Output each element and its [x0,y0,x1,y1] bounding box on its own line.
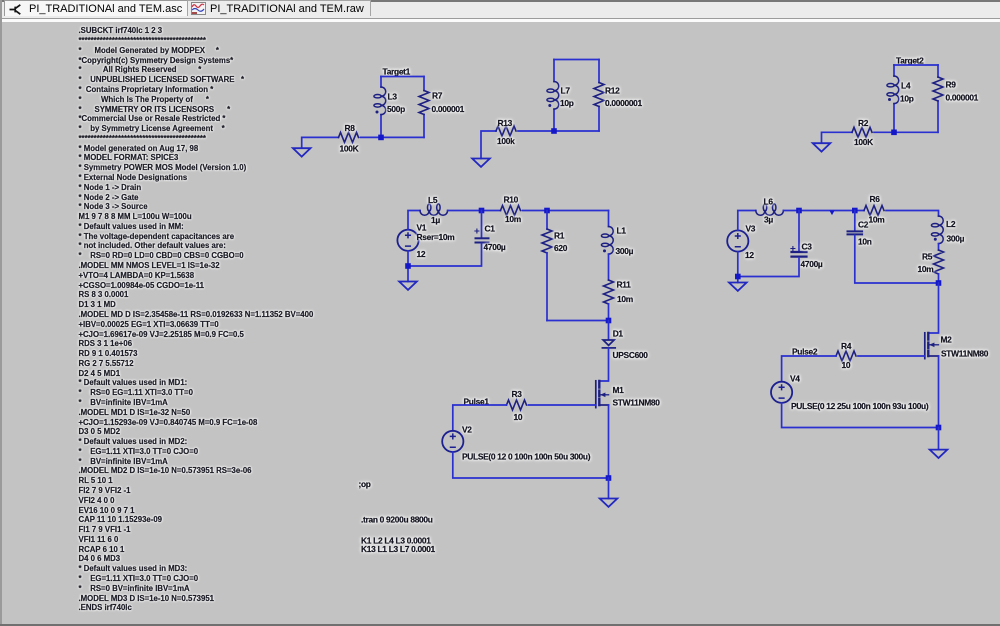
phase dot L2 [934,238,937,241]
junction circuit1 [378,135,384,141]
wire C1 lower lead [408,244,482,267]
svg-text:12: 12 [417,249,426,259]
svg-text:L3: L3 [388,91,398,101]
capacitor C1 [475,224,506,253]
wire ground stem M1 [608,478,610,499]
svg-text:R9: R9 [946,79,957,89]
svg-text:300µ: 300µ [616,246,634,256]
svg-text:M2: M2 [941,335,953,345]
node tick on wire [829,211,834,216]
tab PI_TRADITIONAl and TEM.raw [187,0,371,16]
svg-text:1µ: 1µ [431,215,440,225]
wire R1 lower lead [546,253,548,321]
svg-text:100K: 100K [340,144,359,154]
resistor R4 [836,341,856,370]
directive K13 [361,544,436,554]
svg-text:PULSE(0 12 25u 100n 100n 93u 1: PULSE(0 12 25u 100n 100n 93u 100u) [791,401,929,411]
svg-text:Target1: Target1 [383,67,411,77]
SPICE netlist text block [79,26,314,613]
wire C2 lower lead [855,235,939,283]
junction V3 bottom [735,274,741,280]
voltage source V2 [442,424,591,461]
svg-text:10p: 10p [560,98,574,108]
junction circuit3 [891,130,897,136]
resistor R5 [918,250,944,274]
ground circuit3 [813,143,831,151]
wire L1 to R11 [608,254,610,280]
wire Pulse2 [782,356,836,382]
wire loop2 bottom [554,130,599,132]
svg-text:R4: R4 [841,341,852,351]
directive K1 [361,536,431,546]
svg-text:UPSC600: UPSC600 [613,350,649,360]
resistor R3 [507,389,527,422]
svg-text:R3: R3 [512,389,523,399]
ground circuit1 [293,148,311,156]
wire L1 upper lead [608,211,610,227]
wire loop2 top [554,59,599,61]
svg-text:PULSE(0 12 0 100n 100n 50u 300: PULSE(0 12 0 100n 100n 50u 300u) [462,452,591,462]
diode D1 [602,328,648,360]
wire Pulse1 [453,405,507,431]
wire R12 leads [598,60,600,132]
wire L7 leads [553,60,555,132]
inductor L4 [887,76,914,104]
node Target1 label [383,67,411,77]
node Pulse2 label [792,346,818,356]
svg-text:620: 620 [554,243,568,253]
svg-text:C3: C3 [802,242,813,252]
wire to M2 drain [928,283,938,333]
capacitor C2 [848,220,872,247]
wire Target1 loop top [381,76,424,78]
svg-text:R8: R8 [345,123,356,133]
ground circuit2 [472,159,490,167]
wire V3 bottom [737,252,739,283]
window bottom edge [0,624,1000,626]
svg-text:D1: D1 [613,328,624,338]
svg-text:C2: C2 [858,220,869,230]
inductor L7 [547,82,574,110]
inductor L1 [601,226,633,256]
capacitor C3 [791,242,823,269]
resistor R7 [419,91,465,115]
svg-text:10: 10 [842,360,851,370]
svg-text:0.000001: 0.000001 [432,104,465,114]
svg-text:R10: R10 [504,195,519,205]
node Target2 label [896,56,924,66]
svg-text:R12: R12 [605,85,620,95]
inductor L2 [931,216,964,244]
wire R11 lower lead [608,304,610,321]
wire D1 to M1 drain [599,348,608,381]
transistor M1 [596,381,660,408]
wire L6 to C3 junction [783,210,864,212]
wire Target1 loop bottom [381,136,424,138]
svg-text:10p: 10p [900,93,914,103]
resistor R2 [852,118,873,147]
wire M1 source down [608,405,610,478]
wire M2 gate [858,355,925,357]
wire C2 upper lead [854,211,856,231]
wire R7 leads [423,77,425,138]
wire R8 right [361,136,382,138]
svg-text:10m: 10m [918,264,934,274]
phase dot L1 [603,249,606,252]
node Pulse1 label [464,396,490,406]
wire L3 leads [380,77,382,138]
svg-text:V4: V4 [790,373,800,383]
junction C1 top [479,208,485,214]
svg-text:L1: L1 [617,226,627,236]
junction V1 bottom [405,263,411,269]
svg-text:300µ: 300µ [947,233,965,243]
svg-text:.tran 0 9200u 8800u: .tran 0 9200u 8800u [361,515,433,525]
window left edge [0,0,2,626]
wire D1 upper lead [608,321,610,340]
wire R5 lower lead [938,274,940,283]
svg-text:R7: R7 [432,91,443,101]
inductor L3 [374,87,405,115]
svg-text:STW11NM80: STW11NM80 [941,348,989,358]
svg-text:R5: R5 [922,251,933,261]
wire Target2 loop top [894,64,938,66]
svg-text:Rser=10m: Rser=10m [417,232,455,242]
junction R1 top [544,208,550,214]
svg-text:10: 10 [514,412,523,422]
wire V1 top [408,211,420,230]
wire R13 right [518,130,554,132]
resistor R9 [933,77,979,103]
directive op comment [359,479,371,489]
ground V1 [399,282,417,290]
svg-text:100K: 100K [854,137,873,147]
svg-text:Target2: Target2 [896,56,924,66]
svg-text:R6: R6 [870,194,881,204]
wire C3 upper lead [798,211,800,252]
ground M2 source [930,450,948,458]
svg-text:4700µ: 4700µ [484,242,506,252]
ground M1 source [600,499,618,507]
svg-text:3µ: 3µ [764,215,773,225]
directive tran [361,515,433,525]
wire L5 to C1 junction [448,210,501,212]
svg-text:10m: 10m [869,215,885,225]
wire R6 to L2 corner [886,211,939,217]
wire V2 bottom [453,452,609,478]
inductor L5 [420,195,448,225]
inductor L6 [756,197,784,225]
voltage source V1 [397,223,454,260]
wire loop bottom R1-L1 [547,320,609,322]
svg-text:R11: R11 [617,280,632,290]
svg-text:10m: 10m [617,294,633,304]
phase dot L7 [548,104,551,107]
wire V4 bottom [782,403,939,428]
wire ground stem M2 [938,428,940,450]
junction M1 source [606,475,612,481]
resistor R13 [496,118,516,146]
svg-text:4700µ: 4700µ [801,259,823,269]
phase dot L3 [376,111,379,114]
window top edge [0,0,1000,2]
svg-text:K13 L1 L3 L7 0.0001: K13 L1 L3 L7 0.0001 [361,544,436,554]
voltage source V3 [727,224,756,260]
waveform tab icon [192,3,206,15]
wire M2 source down [938,356,940,428]
transistor M2 [925,333,989,359]
wire R10 to L1 corner [523,210,609,212]
resistor R1 [542,229,568,253]
svg-text:;op: ;op [359,479,371,489]
svg-text:V3: V3 [746,224,756,234]
svg-text:R1: R1 [554,231,565,241]
svg-text:500p: 500p [387,104,405,114]
junction D1 top [606,318,612,324]
svg-text:L6: L6 [764,197,774,207]
wire Target2 loop bottom [894,131,938,133]
svg-text:0.000001: 0.000001 [946,93,979,103]
voltage source V4 [771,373,929,411]
svg-text:12: 12 [745,250,754,260]
wire L4 leads [893,65,895,132]
svg-text:L2: L2 [946,219,956,229]
wire V1 bottom [407,251,409,282]
svg-text:100k: 100k [497,136,515,146]
svg-text:C1: C1 [485,224,496,234]
svg-text:L5: L5 [428,195,438,205]
resistor R12 [594,83,643,108]
wire C3 lower lead [738,258,799,277]
ground V3 [729,283,747,291]
wire M1 gate [529,404,596,406]
junction R5 bottom [936,280,942,286]
svg-text:V2: V2 [462,424,472,434]
wire R2 left [822,132,853,143]
wire R8 left [302,137,339,148]
tab PI_TRADITIONAl and TEM.asc (active) [4,0,189,16]
tab strip [2,2,1000,19]
svg-text:R2: R2 [858,118,869,128]
wire L2 to R5 [938,244,940,250]
resistor R11 [604,280,633,305]
svg-text:10n: 10n [858,237,872,247]
resistor R8 [339,123,359,154]
wire R13 left [481,131,496,159]
junction C3 top [796,208,802,214]
junction circuit2 [551,128,557,134]
wire V3 top [738,211,756,231]
svg-text:10m: 10m [505,214,521,224]
svg-text:STW11NM80: STW11NM80 [613,398,661,408]
svg-text:M1: M1 [613,385,625,395]
svg-text:0.0000001: 0.0000001 [605,98,643,108]
svg-text:L4: L4 [901,80,911,90]
wire R1 upper lead [546,211,548,230]
svg-text:Pulse2: Pulse2 [792,346,818,356]
svg-text:L7: L7 [561,85,571,95]
junction C2 top [852,208,858,214]
resistor R6 [864,194,884,225]
wire C1 upper lead [481,211,483,238]
schematic tab icon (transistor glyph) [10,5,21,14]
phase dot L4 [888,98,891,101]
wire R2 right [874,131,894,133]
junction M2 source [936,425,942,431]
wire R9 leads [937,65,939,132]
svg-text:R13: R13 [498,118,513,128]
resistor R10 [501,195,521,224]
